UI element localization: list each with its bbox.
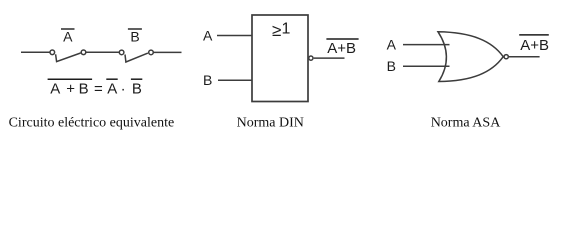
svg-text:B: B bbox=[130, 29, 139, 45]
svg-text:+: + bbox=[66, 81, 75, 98]
switch SW1 contact circle right bbox=[81, 50, 86, 55]
svg-text:B: B bbox=[387, 58, 396, 74]
DIN gate body rectangle U1 bbox=[252, 15, 308, 102]
svg-text:A: A bbox=[50, 81, 60, 98]
svg-text:A: A bbox=[203, 28, 213, 44]
svg-text:·: · bbox=[121, 81, 126, 98]
DIN gate output wire bbox=[314, 57, 345, 59]
ASA gate input wire A bbox=[403, 44, 450, 46]
svg-text:A: A bbox=[63, 29, 73, 45]
switch SW2 blade bbox=[125, 53, 148, 62]
ASA gate output inversion bubble bbox=[504, 55, 508, 59]
switch SW2 contact circle left bbox=[119, 50, 124, 55]
DIN gate output inversion bubble bbox=[309, 56, 313, 60]
svg-text:Norma ASA: Norma ASA bbox=[431, 116, 502, 131]
svg-text:Circuito eléctrico equivalente: Circuito eléctrico equivalente bbox=[9, 116, 175, 131]
equation overline over right B bbox=[131, 78, 142, 80]
DIN gate input wire B bbox=[218, 79, 252, 81]
svg-text:A: A bbox=[107, 81, 117, 98]
DIN output label overline bbox=[326, 38, 358, 40]
DIN gate input wire A bbox=[217, 35, 252, 37]
wire between switches bbox=[86, 51, 119, 53]
svg-text:Norma DIN: Norma DIN bbox=[237, 116, 304, 131]
svg-text:A+B: A+B bbox=[520, 37, 549, 54]
label switch B overline bbox=[128, 28, 142, 30]
ASA NOR gate body bbox=[438, 32, 503, 82]
equation overline over A+B bbox=[48, 78, 93, 80]
switch SW1 contact circle left bbox=[50, 50, 55, 55]
svg-text:=: = bbox=[94, 81, 103, 98]
switch SW2 contact circle right bbox=[149, 50, 154, 55]
svg-text:1: 1 bbox=[282, 20, 291, 37]
svg-text:≥: ≥ bbox=[272, 21, 281, 40]
ASA output label overline bbox=[519, 34, 549, 36]
wire right lead bbox=[153, 51, 181, 53]
svg-text:B: B bbox=[79, 81, 89, 98]
label switch A overline bbox=[61, 28, 75, 30]
equation overline over right A bbox=[106, 78, 117, 80]
switch SW1 blade bbox=[56, 53, 81, 62]
svg-text:B: B bbox=[203, 72, 212, 88]
ASA gate output wire bbox=[509, 56, 540, 58]
svg-text:A: A bbox=[387, 37, 397, 53]
svg-text:B: B bbox=[132, 81, 142, 98]
ASA gate input wire B bbox=[403, 65, 450, 67]
wire left lead bbox=[21, 51, 50, 53]
svg-text:A+B: A+B bbox=[327, 40, 356, 57]
